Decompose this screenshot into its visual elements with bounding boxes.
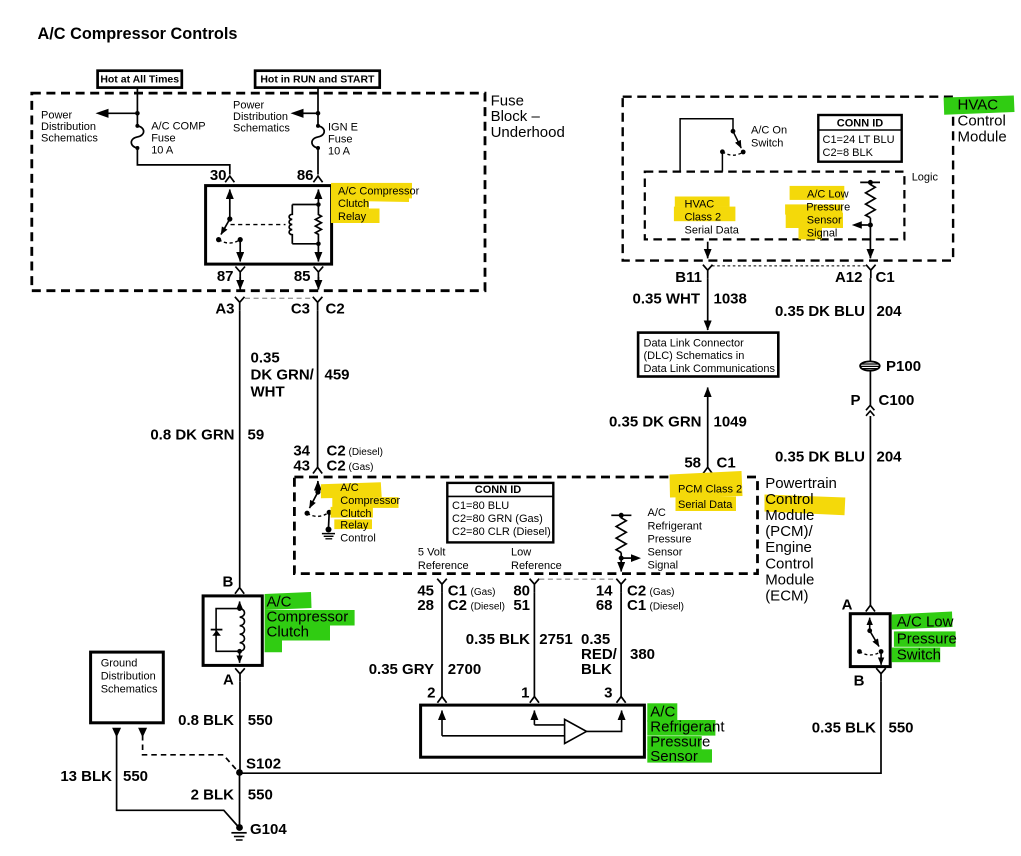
fuse A/C COMP 10 A (131, 124, 143, 150)
arrow to Power Distribution Schematics (left branch) (96, 109, 138, 118)
connector chevron sensor pin 1 (530, 697, 539, 703)
box Hot in RUN and START (255, 71, 380, 88)
wire PCM class2 serial data up to DLC (arrow up) (707, 388, 709, 468)
connector Y switch B (876, 668, 886, 682)
svg-text:Block –: Block – (491, 108, 541, 125)
relay resistor zigzag (315, 205, 321, 244)
highlight yellow Control (PCM label) (765, 495, 846, 516)
internal ground symbol (322, 534, 335, 539)
svg-text:Data Link Connector: Data Link Connector (644, 337, 745, 349)
svg-text:Compressor: Compressor (340, 495, 400, 507)
DLC box (638, 333, 778, 377)
svg-text:(Gas): (Gas) (349, 462, 374, 473)
node junction dot right (316, 111, 321, 116)
svg-text:2 BLK: 2 BLK (191, 787, 235, 804)
svg-text:Sensor: Sensor (650, 748, 698, 765)
label 0.35 DK GRN/ WHT (251, 350, 315, 401)
label A/C Low Pressure Switch (897, 614, 957, 664)
svg-text:Switch: Switch (751, 138, 783, 150)
svg-text:0.8 DK GRN: 0.8 DK GRN (150, 427, 234, 444)
svg-text:A/C Low: A/C Low (807, 188, 849, 200)
pin 87 connector Y (235, 267, 245, 281)
HVAC control module (dashed box) (623, 97, 953, 261)
svg-text:0.35 DK BLU: 0.35 DK BLU (775, 303, 865, 320)
switch blade (870, 631, 879, 647)
connector A12/C1 Y (866, 265, 876, 279)
label HVAC Control Module (958, 97, 1007, 146)
svg-text:A: A (842, 597, 853, 614)
wire to internal ground (328, 512, 331, 527)
svg-text:204: 204 (877, 303, 903, 320)
wire PCM 14/68 to sensor pin 3 (620, 592, 622, 696)
svg-text:Schematics: Schematics (101, 684, 158, 696)
wire S102 to G104 (239, 773, 241, 828)
svg-text:1038: 1038 (714, 291, 747, 308)
svg-text:2751: 2751 (539, 631, 572, 648)
svg-text:Class 2: Class 2 (685, 212, 722, 224)
svg-text:A/C Compressor: A/C Compressor (338, 186, 420, 198)
clutch output arrow down (239, 651, 241, 663)
svg-text:59: 59 (248, 427, 265, 444)
A/C On Switch dashed throw arc (722, 152, 743, 155)
connector chevron sensor pin 3 (617, 697, 626, 703)
node dot resistor top (868, 180, 873, 185)
arrow A/C low pressure sensor signal (left) (852, 221, 871, 229)
svg-text:Relay: Relay (338, 211, 367, 223)
label A/C Compressor Clutch Relay (338, 186, 420, 224)
highlight green A/C Compressor Clutch (265, 592, 355, 652)
svg-text:Schematics: Schematics (233, 123, 290, 135)
svg-text:HVAC: HVAC (685, 198, 715, 210)
svg-text:550: 550 (248, 712, 273, 729)
svg-text:HVAC: HVAC (958, 97, 999, 114)
label HVAC Class 2 Serial Data (685, 198, 740, 236)
svg-text:3: 3 (604, 685, 612, 702)
label C2 (Gas) (627, 583, 675, 600)
svg-text:58: 58 (684, 455, 701, 472)
CONN ID box (PCM) (447, 483, 553, 543)
svg-text:Power: Power (41, 110, 73, 122)
svg-text:86: 86 (297, 167, 314, 184)
switch pivot dot (315, 489, 320, 494)
svg-text:CONN ID: CONN ID (475, 484, 522, 496)
highlight yellow HVAC Class 2 (674, 197, 736, 222)
switch blade (310, 492, 318, 508)
label Powertrain Control Module (PCM)/ Engine Control Module (ECM) (765, 475, 837, 605)
clutch diode branch (216, 609, 240, 652)
op-amp output wire (587, 711, 622, 732)
svg-text:Distribution: Distribution (101, 671, 156, 683)
svg-text:Powertrain: Powertrain (765, 475, 837, 492)
connector chevron 58/C1 into PCM (703, 467, 712, 473)
label A/C Refrigerant Pressure Sensor Signal (648, 507, 702, 571)
svg-text:C1: C1 (717, 455, 736, 472)
svg-text:(DLC) Schematics in: (DLC) Schematics in (644, 350, 745, 362)
wire from Hot at All Times down to fuse (136, 88, 138, 126)
wire fuse to relay pin 30 (137, 148, 229, 175)
svg-text:10 A: 10 A (328, 145, 351, 157)
arrow to Power Distribution Schematics (right branch) (291, 109, 319, 118)
A/C On Switch top contact dot (731, 129, 736, 134)
svg-text:A/C: A/C (340, 482, 358, 494)
node dot signal junction (619, 556, 624, 561)
arrow triangle down right (138, 728, 147, 738)
svg-text:380: 380 (630, 646, 655, 663)
svg-text:28: 28 (417, 597, 434, 614)
highlight yellow PCM Class 2 Serial Data (670, 471, 743, 511)
op-amp triangle (565, 719, 587, 743)
svg-text:(PCM)/: (PCM)/ (765, 523, 813, 540)
connector C100 double chevron (866, 405, 874, 415)
svg-text:A/C Compressor Controls: A/C Compressor Controls (38, 25, 238, 43)
ground distribution schematics box (91, 652, 164, 723)
relay coil top bar (292, 204, 318, 206)
label C2 (Gas) (327, 458, 374, 475)
svg-text:C1=80 BLU: C1=80 BLU (452, 500, 509, 512)
connector chevron clutch B (235, 588, 244, 594)
svg-text:Switch: Switch (897, 647, 941, 664)
svg-text:Schematics: Schematics (41, 133, 98, 145)
A/C On Switch blade (733, 131, 741, 148)
switch contact dot right (327, 510, 332, 515)
label 5 Volt Reference (418, 547, 469, 572)
connector B11 Y (703, 265, 713, 279)
svg-text:C2: C2 (327, 458, 346, 475)
label C1 (Gas) (448, 583, 496, 600)
svg-text:WHT: WHT (251, 384, 285, 401)
svg-text:Pressure: Pressure (897, 631, 957, 648)
relay switch contact dot right (238, 237, 243, 242)
relay wire to pin 85 (arrow down) (317, 244, 319, 262)
relay switch blade (221, 219, 230, 235)
wire resistor bottom (869, 218, 871, 225)
wire clutch A down to S102 (239, 682, 241, 773)
label Power Distribution Schematics (left) (41, 110, 98, 145)
highlight yellow A/C Low Pressure Sensor Signal (785, 186, 844, 240)
connector chevron into PCM (313, 467, 322, 473)
svg-text:30: 30 (210, 167, 227, 184)
svg-text:S102: S102 (246, 756, 281, 773)
svg-text:Relay: Relay (340, 520, 369, 532)
PCM resistor zigzag (616, 515, 626, 552)
wire PCM 45/28 to sensor pin 2 (441, 592, 443, 696)
highlight green A/C Refrigerant Pressure Sensor (647, 703, 715, 762)
svg-text:0.35 WHT: 0.35 WHT (632, 291, 700, 308)
svg-text:Module: Module (765, 507, 814, 524)
svg-text:550: 550 (248, 787, 273, 804)
switch internal arrow up (869, 618, 871, 631)
svg-text:13 BLK: 13 BLK (60, 768, 112, 785)
dashed ground wire to S102 (143, 735, 238, 772)
label A/C Compressor Clutch (267, 594, 349, 641)
sensor pin1 internal arrow (533, 711, 535, 725)
svg-text:Distribution: Distribution (41, 121, 96, 133)
A/C On Switch contact dot right (741, 150, 746, 155)
wire B11 to DLC box (arrow down) (707, 278, 709, 330)
relay output wire to pin 87 (arrow down) (239, 240, 241, 262)
wire fuse to relay pin 86 (317, 148, 319, 175)
label IGN E Fuse 10 A (328, 121, 358, 157)
svg-text:550: 550 (889, 720, 914, 737)
clutch coil (240, 609, 245, 652)
node dot clutch coil top (237, 606, 242, 611)
connector C3/C2 chevron (313, 297, 323, 311)
ground G104 dot (236, 824, 243, 831)
PCM relay control switch arrow up (317, 481, 319, 492)
sensor pin1 path to op-amp (534, 724, 564, 726)
svg-text:Control: Control (765, 491, 813, 508)
svg-text:Sensor: Sensor (807, 214, 842, 226)
PCM/ECM module (dashed box) (294, 477, 757, 574)
wire HVAC class2 serial data down to module edge (707, 242, 709, 259)
svg-text:(Diesel): (Diesel) (650, 602, 684, 613)
relay pin86 internal arrow up (317, 190, 319, 205)
node dot signal junction (868, 223, 873, 228)
CONN ID box (HVAC) (818, 115, 901, 162)
svg-text:Refrigerant: Refrigerant (648, 520, 702, 532)
svg-text:5 Volt: 5 Volt (418, 547, 446, 559)
wire C100 down to low pressure switch (869, 416, 871, 605)
svg-text:Reference: Reference (511, 560, 562, 572)
relay switch pivot dot (227, 216, 232, 221)
switch dashed throw arc (307, 512, 329, 516)
node junction dot left (135, 111, 140, 116)
HVAC logic inner dashed box (645, 172, 905, 240)
svg-text:Module: Module (765, 571, 814, 588)
switch contact dot left (305, 511, 310, 516)
wire PCM 80/51 to sensor pin 1 (533, 592, 535, 696)
svg-text:C3: C3 (291, 301, 310, 318)
connector Y clutch A (235, 668, 245, 682)
svg-text:0.35 BLK: 0.35 BLK (812, 720, 876, 737)
svg-text:CONN ID: CONN ID (837, 117, 884, 129)
svg-text:Clutch: Clutch (267, 624, 310, 641)
svg-text:Signal: Signal (648, 560, 679, 572)
diode cathode bar (211, 629, 223, 631)
svg-text:Ground: Ground (101, 658, 138, 670)
arrow triangle down left (112, 728, 121, 738)
label PCM Class 2 Serial Data (678, 484, 742, 511)
label A/C Compressor Clutch Relay Control (340, 482, 400, 545)
svg-text:(Gas): (Gas) (650, 587, 675, 598)
A/C On Switch wiring loop (680, 119, 733, 172)
svg-text:0.8 BLK: 0.8 BLK (178, 712, 234, 729)
wire resistor bottom (620, 553, 622, 559)
diode triangle (212, 630, 221, 636)
svg-text:459: 459 (325, 367, 350, 384)
connector chevron switch A (866, 605, 875, 611)
svg-text:0.35: 0.35 (251, 350, 280, 367)
label C2 (Diesel) (327, 443, 383, 460)
svg-text:Control: Control (340, 533, 375, 545)
wire A12/C1 down to P100 (869, 278, 871, 362)
svg-text:(Diesel): (Diesel) (349, 447, 383, 458)
label A/C Refrigerant Pressure Sensor (650, 704, 725, 766)
relay dashed actuation line (231, 224, 286, 226)
svg-text:Clutch: Clutch (340, 508, 371, 520)
svg-text:204: 204 (877, 449, 903, 466)
svg-text:C100: C100 (879, 392, 915, 409)
svg-text:43: 43 (293, 458, 310, 475)
switch output arrow down (880, 652, 882, 665)
ground G104 symbol (231, 833, 246, 840)
svg-text:10 A: 10 A (151, 144, 174, 156)
svg-text:Fuse: Fuse (328, 133, 352, 145)
grommet P100 (860, 361, 880, 370)
sensor pin2 lower path (442, 735, 565, 737)
node dot resistor top (619, 513, 624, 518)
svg-text:PCM Class 2: PCM Class 2 (678, 484, 742, 496)
highlight yellow relay label (331, 183, 412, 223)
svg-text:Module: Module (958, 129, 1007, 146)
switch pivot dot (867, 628, 872, 633)
box Hot at All Times (98, 71, 182, 88)
svg-text:B11: B11 (675, 269, 702, 286)
svg-text:Clutch: Clutch (338, 198, 369, 210)
fuse block underhood (dashed box) (32, 93, 485, 291)
svg-text:G104: G104 (250, 821, 287, 838)
svg-text:C2: C2 (326, 301, 345, 318)
relay switch dashed throw arc (219, 240, 241, 243)
svg-text:2: 2 (427, 685, 435, 702)
svg-text:68: 68 (596, 597, 613, 614)
pin 86 connector chevron (313, 176, 322, 182)
HVAC resistor zigzag (866, 182, 876, 217)
svg-text:Distribution: Distribution (233, 111, 288, 123)
svg-text:87: 87 (217, 268, 234, 285)
svg-text:0.35 DK BLU: 0.35 DK BLU (775, 449, 865, 466)
A/C low pressure switch box (850, 614, 890, 667)
svg-text:A/C: A/C (648, 507, 666, 519)
svg-text:A/C On: A/C On (751, 125, 787, 137)
svg-text:(Diesel): (Diesel) (471, 602, 505, 613)
svg-text:550: 550 (123, 768, 148, 785)
svg-text:Serial Data: Serial Data (685, 225, 740, 237)
svg-text:Power: Power (233, 100, 265, 112)
clutch internal arrow up (239, 602, 241, 609)
svg-text:51: 51 (513, 597, 530, 614)
wire pin 87 to fuse block edge (239, 277, 241, 290)
svg-text:85: 85 (294, 268, 311, 285)
highlight green HVAC (944, 96, 1015, 115)
connector joint dashed line gray (245, 297, 313, 299)
relay coil bottom bar (292, 243, 318, 245)
wire 13 BLK to G104 (117, 735, 239, 828)
svg-text:Control: Control (765, 555, 813, 572)
svg-text:P100: P100 (886, 358, 921, 375)
connector 14/68 Y (616, 579, 626, 593)
svg-text:Hot in RUN and START: Hot in RUN and START (260, 74, 375, 86)
wire A3 down to compressor clutch (239, 310, 241, 587)
svg-text:Sensor: Sensor (648, 547, 683, 559)
label Power Distribution Schematics (right) (233, 100, 290, 135)
svg-text:C1: C1 (627, 597, 646, 614)
svg-text:IGN E: IGN E (328, 121, 358, 133)
svg-text:C2: C2 (448, 597, 467, 614)
svg-text:Engine: Engine (765, 539, 812, 556)
svg-text:(Gas): (Gas) (471, 587, 496, 598)
svg-text:2700: 2700 (448, 661, 481, 678)
svg-text:A3: A3 (215, 301, 234, 318)
sensor pin2 internal arrow and wire to op-amp (441, 711, 443, 736)
highlight yellow A/C Compressor Clutch Relay (control) (321, 482, 399, 529)
label C1 (Diesel) (627, 597, 684, 614)
svg-text:A/C Low: A/C Low (897, 614, 954, 631)
svg-text:Logic: Logic (912, 171, 939, 183)
svg-text:Reference: Reference (418, 560, 469, 572)
svg-text:B: B (854, 673, 865, 690)
wire pin 85 to fuse block edge (317, 277, 319, 290)
svg-text:B: B (223, 574, 234, 591)
svg-text:Fuse: Fuse (151, 132, 175, 144)
label Low Reference (511, 547, 562, 572)
svg-text:Underhood: Underhood (491, 124, 565, 141)
wire switch B down to splice wire (239, 682, 881, 774)
svg-text:0.35 GRY: 0.35 GRY (369, 661, 434, 678)
arrow A/C refrigerant pressure sensor signal (right) (621, 554, 641, 562)
svg-text:A: A (223, 672, 234, 689)
label 0.35 RED/ BLK (581, 631, 618, 678)
svg-text:DK GRN/: DK GRN/ (251, 367, 315, 384)
svg-text:Data Link Communications: Data Link Communications (644, 363, 776, 375)
relay pin30 internal arrow up (229, 190, 231, 220)
connector 45/28 Y (437, 579, 447, 593)
fuse IGN E 10 A (312, 124, 324, 150)
label A/C COMP Fuse 10 A (151, 120, 205, 156)
svg-text:A/C COMP: A/C COMP (151, 120, 205, 132)
highlight green A/C Low Pressure Switch (892, 612, 956, 663)
A/C On Switch contact dot left (720, 149, 725, 154)
svg-text:C1: C1 (876, 269, 895, 286)
svg-text:C1=24 LT BLU: C1=24 LT BLU (823, 134, 895, 146)
svg-text:Pressure: Pressure (648, 533, 692, 545)
switch contact dot left (857, 649, 862, 654)
wire signal down through logic box to module edge (869, 225, 871, 258)
switch dashed throw arc (859, 652, 881, 656)
wire A/C On Switch to logic box (721, 152, 723, 172)
wire signal down to module edge (620, 558, 622, 571)
svg-text:C2=8 BLK: C2=8 BLK (823, 147, 874, 159)
wire P100 to C100 (869, 371, 871, 406)
PCM sensor signal resistor top bar (611, 514, 631, 516)
connector joint fine dashed line (712, 265, 866, 267)
label A/C Low Pressure Sensor Signal (806, 188, 850, 239)
relay A/C Compressor Clutch Relay box (206, 186, 332, 265)
node dot coil bottom (316, 242, 321, 247)
A/C compressor clutch box (203, 596, 262, 666)
svg-text:A12: A12 (835, 269, 863, 286)
label C2 (Diesel) (448, 597, 505, 614)
svg-text:Signal: Signal (807, 228, 838, 240)
A/C refrigerant pressure sensor box (421, 705, 645, 757)
label A/C On Switch (751, 125, 787, 150)
relay switch contact dot left (216, 237, 221, 242)
svg-text:Serial Data: Serial Data (678, 499, 733, 511)
svg-text:Control: Control (958, 113, 1006, 130)
node dot clutch coil bottom (237, 649, 242, 654)
svg-text:Low: Low (511, 547, 531, 559)
svg-text:1049: 1049 (714, 414, 747, 431)
HVAC pull-up resistor top bar (860, 181, 880, 183)
connector chevron sensor pin 2 (437, 697, 446, 703)
splice S102 dot (236, 769, 243, 776)
node dot coil top (316, 202, 321, 207)
connector A3 chevron (235, 297, 245, 311)
internal ground dot (326, 527, 332, 533)
svg-text:Hot at All Times: Hot at All Times (100, 74, 179, 86)
connector 80/51 Y (530, 579, 540, 593)
svg-text:0.35 BLK: 0.35 BLK (466, 631, 530, 648)
